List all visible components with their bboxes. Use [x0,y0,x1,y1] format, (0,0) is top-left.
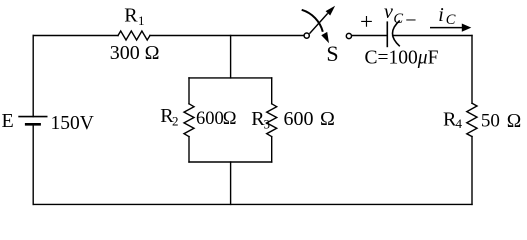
switch S blade arrowhead [326,6,336,16]
wire top-middle [150,35,303,37]
svg-text:4: 4 [456,116,463,131]
switch S left contact [304,33,309,38]
resistor R4 [467,103,477,136]
svg-text:2: 2 [172,113,179,128]
svg-text:C=100μF: C=100μF [365,48,439,69]
svg-text:C: C [446,12,456,28]
switch S blade [310,13,328,33]
wire network right lower [271,137,273,162]
svg-text:150V: 150V [51,113,94,134]
svg-text:600: 600 [196,109,224,129]
battery E short plate [25,123,41,126]
wire right of switch [352,35,387,37]
svg-text:i: i [438,4,444,26]
svg-text:50: 50 [481,111,500,132]
svg-text:E: E [2,110,14,132]
wire left upper [32,36,34,117]
wire left lower [32,124,34,204]
svg-text:v: v [384,1,393,23]
wire capacitor to right corner [393,35,472,37]
svg-text:Ω: Ω [507,111,522,132]
svg-text:600: 600 [284,108,314,130]
svg-text:−: − [405,10,416,32]
svg-text:R: R [124,5,138,27]
capacitor C left plate [386,21,388,47]
wire network left lower [188,137,190,162]
svg-text:1: 1 [138,13,145,28]
wire bottom [33,203,472,205]
svg-text:Ω: Ω [223,109,237,129]
svg-text:C: C [393,11,403,27]
svg-text:300: 300 [110,42,140,64]
current arrow iC head [462,24,472,32]
switch S right contact [346,33,351,38]
resistor R1 [118,31,150,40]
svg-text:S: S [326,41,338,66]
wire network top edge [189,77,272,79]
resistor R3 [267,104,277,137]
wire network right upper [271,78,273,104]
svg-text:Ω: Ω [145,42,160,64]
current arrow iC shaft [430,27,462,29]
switch S closing arc [302,10,323,32]
resistor R2 [184,104,194,137]
svg-text:Ω: Ω [320,108,335,130]
capacitor C right curved plate [393,21,400,47]
wire top-left [33,35,118,37]
wire network bottom edge [189,161,272,163]
svg-text:3: 3 [264,117,271,132]
switch S closing arc arrowhead [321,32,329,43]
svg-text:+: + [360,9,373,34]
battery E long plate [18,116,47,118]
wire right lower [471,137,473,205]
wire right upper [471,36,473,104]
wire junction stub to network [230,36,232,78]
wire network left upper [188,78,190,104]
wire network bottom stub [230,162,232,204]
